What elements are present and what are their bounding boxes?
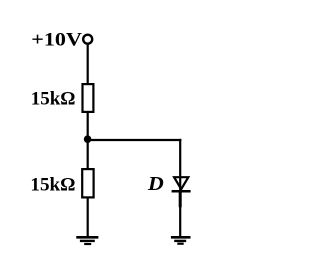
resistor R2 15k — [82, 169, 93, 197]
svg-text:D: D — [147, 173, 164, 195]
svg-text:+10V: +10V — [31, 30, 82, 51]
diode D triangle — [174, 177, 188, 189]
ground left — [76, 237, 98, 244]
wire from R2 to ground — [87, 197, 89, 237]
wire diode lead overlap — [179, 192, 182, 207]
diode D cathode bar — [172, 190, 191, 193]
resistor R1 15k — [83, 84, 94, 112]
wire from terminal to R1 — [87, 45, 89, 85]
svg-text:15kΩ: 15kΩ — [30, 175, 75, 196]
svg-text:15kΩ: 15kΩ — [31, 89, 76, 110]
ground right — [171, 237, 191, 243]
wire right branch vertical — [179, 139, 181, 237]
junction node dot — [84, 135, 92, 143]
node +10V terminal circle — [83, 35, 92, 44]
wire from R1 to R2 through node — [87, 112, 89, 169]
wire horizontal from node to right branch — [87, 139, 181, 141]
